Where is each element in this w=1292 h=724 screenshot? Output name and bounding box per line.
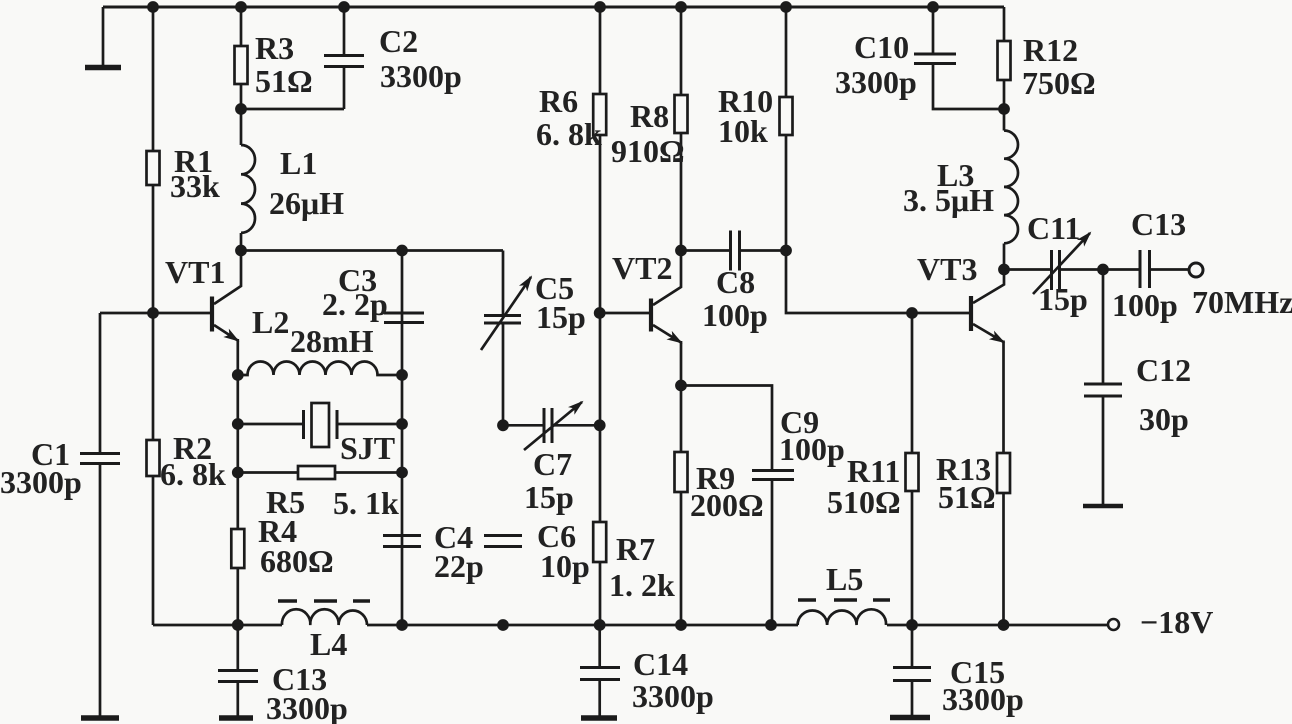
svg-text:3300p: 3300p (632, 678, 714, 714)
svg-text:C11: C11 (1027, 210, 1080, 246)
junction rail / C4 branch (396, 619, 408, 631)
wire R11 branch vertical (911, 313, 914, 625)
wire C12 branch vertical (1102, 270, 1105, 384)
wire C13 to ground (236, 682, 239, 716)
svg-text:51Ω: 51Ω (255, 63, 313, 99)
wire R3 bottom to C2 bottom (241, 108, 344, 111)
svg-text:26μH: 26μH (269, 185, 344, 221)
capacitor C5 trimmer arrow (481, 277, 531, 350)
junction top rail / R3 (235, 1, 247, 13)
svg-text:R3: R3 (255, 30, 294, 66)
L5 core dash 2 (834, 598, 857, 601)
svg-text:SJT: SJT (340, 430, 395, 466)
svg-text:15p: 15p (1038, 281, 1088, 317)
junction crystal left (232, 418, 244, 430)
wire R9 branch vertical (680, 386, 683, 626)
wire R10 branch vertical (785, 7, 788, 251)
capacitor C5 (variable) plates (484, 314, 521, 317)
transistor VT3 emitter lead with arrow (973, 324, 1004, 342)
svg-text:R8: R8 (630, 98, 669, 134)
capacitor C15 (893, 666, 931, 669)
transistor VT1 base bar (210, 297, 214, 332)
inductor L4 (282, 609, 367, 625)
svg-text:VT3: VT3 (917, 251, 977, 287)
svg-text:2. 2p: 2. 2p (322, 286, 388, 322)
svg-text:C2: C2 (379, 23, 418, 59)
wire C12 bottom stub (1102, 397, 1105, 505)
svg-text:100p: 100p (702, 297, 768, 333)
wire C13 branch (236, 625, 239, 670)
resistor R4 (231, 529, 244, 568)
junction VT3 collector / L3 / C11 node (998, 264, 1010, 276)
node -18V terminal circle (1108, 619, 1119, 630)
svg-text:100p: 100p (1112, 287, 1178, 323)
capacitor C7 trimmer arrow (524, 402, 582, 450)
junction R3 / C2 wire (235, 103, 247, 115)
svg-text:3300p: 3300p (942, 681, 1024, 717)
junction L2 right / C3 branch (396, 369, 408, 381)
transistor VT3 collector lead (973, 270, 1004, 304)
inductor L2 (238, 362, 402, 376)
junction rail / R11 / C15 (906, 619, 918, 631)
junction top rail / R10 (780, 1, 792, 13)
wire R1 R2 branch vertical (152, 7, 155, 625)
svg-text:510Ω: 510Ω (827, 484, 901, 520)
junction rail / R13 (998, 619, 1010, 631)
svg-text:R7: R7 (616, 531, 655, 567)
junction top rail / R6 (594, 1, 606, 13)
svg-text:10p: 10p (540, 548, 590, 584)
wire C7 left lead (503, 424, 544, 427)
svg-text:6. 8k: 6. 8k (160, 456, 226, 492)
svg-text:15p: 15p (536, 299, 586, 335)
resistor R1 (147, 151, 160, 185)
resistor R10 (780, 97, 793, 135)
svg-text:51Ω: 51Ω (938, 479, 996, 515)
ground C15 bar (890, 715, 930, 721)
junction rail / R7 / C14 (594, 619, 606, 631)
svg-text:33k: 33k (170, 168, 220, 204)
resistor R11 (906, 453, 919, 491)
wire C14 branch (598, 625, 601, 667)
svg-text:C8: C8 (716, 264, 755, 300)
svg-text:750Ω: 750Ω (1022, 65, 1096, 101)
inductor L1 (241, 145, 255, 233)
wire emitter branch vertical to rail (236, 375, 239, 625)
capacitor C8 plates (729, 231, 732, 271)
resistor R3 (235, 46, 248, 84)
svg-text:910Ω: 910Ω (611, 133, 685, 169)
crystal SJT left plate (302, 410, 305, 439)
capacitor C11 (variable) plates (1050, 250, 1053, 290)
L5 core dash 1 (798, 598, 816, 601)
L5 core dash 3 (873, 598, 890, 601)
svg-text:R6: R6 (539, 83, 578, 119)
wire R8 branch vertical (680, 7, 683, 251)
junction C8 right / R10 (780, 245, 792, 257)
junction VT1 emitter / L2 left (232, 369, 244, 381)
ground C13 bar (219, 715, 253, 721)
svg-text:3300p: 3300p (380, 58, 462, 94)
svg-text:3300p: 3300p (0, 464, 82, 500)
resistor R13 (997, 453, 1010, 493)
wire C11 left lead (1004, 268, 1050, 271)
wire C10 bottom to R12 node (933, 64, 1004, 109)
transistor VT2 emitter lead with arrow (653, 325, 681, 343)
transistor VT2 base bar (649, 299, 653, 332)
junction top rail / C2 (338, 1, 350, 13)
junction rail / C6 branch (497, 619, 509, 631)
wire VT1 collector node to C5 branch (241, 249, 503, 252)
ground top-left chassis stub (102, 7, 105, 65)
svg-text:R12: R12 (1023, 32, 1078, 68)
svg-text:1. 2k: 1. 2k (609, 567, 675, 603)
resistor R7 (593, 522, 606, 562)
wire VT3 emitter down (1002, 341, 1005, 454)
junction collector wire / C3 branch (396, 245, 408, 257)
capacitor C13 (bypass) (218, 669, 258, 672)
wire C4 branch vertical (401, 375, 404, 625)
svg-text:15p: 15p (524, 479, 574, 515)
inductor L3 (1004, 131, 1018, 244)
svg-text:680Ω: 680Ω (260, 543, 334, 579)
crystal SJT right plate (336, 410, 339, 439)
junction C7 right / R6 branch (594, 419, 606, 431)
svg-text:VT1: VT1 (165, 254, 225, 290)
wire VT1 emitter down (236, 339, 239, 375)
capacitor C6 (484, 534, 522, 537)
junction R5 right (396, 467, 408, 479)
junction rail / R9 (675, 619, 687, 631)
L4 core dash 3 (353, 599, 370, 602)
wire C13 output left lead (1103, 268, 1139, 271)
wire R6 R7 branch vertical (599, 7, 602, 625)
junction R12 bottom / C10 wire (998, 103, 1010, 115)
svg-text:3300p: 3300p (835, 64, 917, 100)
svg-text:70MHz: 70MHz (1192, 284, 1292, 320)
wire C15 to ground (911, 681, 914, 716)
junction VT2 base node (594, 307, 606, 319)
wire C2 branch from rail (343, 7, 346, 55)
resistor R8 (675, 95, 688, 133)
capacitor C1 (80, 452, 120, 455)
wire L3 bottom stub (1003, 244, 1006, 270)
junction top rail / C10 (927, 1, 939, 13)
ground bottom-left bar (81, 715, 119, 721)
svg-text:3. 5μH: 3. 5μH (903, 182, 994, 218)
wire VT1 base (100, 312, 210, 315)
svg-text:L1: L1 (280, 145, 317, 181)
svg-text:C10: C10 (854, 29, 909, 65)
capacitor C13 output coupling plates (1139, 250, 1142, 288)
resistor R6 (593, 94, 606, 135)
capacitor C9 (752, 469, 794, 472)
transistor VT1 emitter lead with arrow (214, 325, 238, 341)
junction VT2 emitter / R9 / C9 node (675, 380, 687, 392)
capacitor C10 (914, 53, 956, 56)
wire C5 bottom (502, 324, 505, 426)
svg-text:C12: C12 (1136, 352, 1191, 388)
L4 core dash 1 (278, 599, 297, 602)
junction C11 / C12 / C13 output node (1097, 264, 1109, 276)
wire L1 bottom stub (240, 233, 243, 251)
svg-text:6. 8k: 6. 8k (536, 116, 602, 152)
svg-text:L2: L2 (252, 304, 289, 340)
wire R5 row (238, 471, 402, 474)
capacitor C4 (383, 534, 421, 537)
capacitor C11 trimmer arrow (1033, 233, 1090, 294)
junction VT2 collector / C8 left (675, 245, 687, 257)
junction R5 left (232, 467, 244, 479)
svg-text:−18V: −18V (1140, 604, 1213, 640)
svg-text:30p: 30p (1139, 401, 1189, 437)
ground C14 bar (581, 715, 617, 721)
wire bottom -18V rail left segment (153, 624, 282, 627)
ground C12 bar (1083, 504, 1123, 509)
wire VT2 base (600, 312, 649, 315)
wire top supply rail (103, 6, 1004, 9)
wire C7 right lead (552, 424, 600, 427)
capacitor C7 (variable) plates (543, 408, 546, 443)
L4 core dash 2 (314, 599, 337, 602)
ground top-left bar (85, 65, 121, 71)
wire bottom rail right segment (887, 624, 1108, 627)
svg-text:C14: C14 (633, 646, 688, 682)
wire R13 to rail (1002, 493, 1005, 625)
wire R3 branch from rail (240, 7, 243, 145)
svg-text:28mH: 28mH (290, 323, 374, 359)
svg-text:10k: 10k (718, 113, 768, 149)
wire bottom rail middle segment (367, 624, 798, 627)
transistor VT3 base bar (969, 296, 973, 331)
wire C1 branch (99, 313, 102, 453)
svg-text:200Ω: 200Ω (690, 487, 764, 523)
junction VT3 base wire / R11 branch (906, 307, 918, 319)
capacitor C2 (324, 54, 364, 57)
wire crystal right lead (339, 423, 403, 426)
wire C10 branch from rail (932, 7, 935, 54)
svg-text:L4: L4 (310, 626, 347, 662)
resistor R2 (147, 440, 160, 476)
wire crystal left lead (238, 423, 304, 426)
junction rail / C9 (765, 619, 777, 631)
capacitor C12 (1084, 383, 1122, 386)
svg-text:100p: 100p (779, 431, 845, 467)
node output terminal circle (1189, 263, 1203, 277)
svg-text:VT2: VT2 (612, 250, 672, 286)
junction top rail / R8 (675, 1, 687, 13)
svg-text:22p: 22p (434, 548, 484, 584)
wire C5 branch from collector row (502, 251, 505, 316)
svg-text:C13: C13 (1131, 206, 1186, 242)
wire C1 to ground (99, 464, 102, 716)
wire C9 to rail (771, 480, 774, 625)
wire C8 right lead (741, 249, 786, 252)
junction rail / R4 / C13 (232, 619, 244, 631)
capacitor C3 (384, 312, 424, 315)
transistor VT1 collector lead (214, 251, 241, 305)
resistor R5 (298, 466, 335, 479)
svg-text:5. 1k: 5. 1k (333, 485, 399, 521)
junction C5 C6 / C7 left (497, 419, 509, 431)
wire C8 left lead (681, 249, 729, 252)
svg-text:3300p: 3300p (266, 690, 348, 724)
wire C14 to ground (598, 680, 601, 716)
wire C2 bottom stub (343, 67, 346, 109)
resistor R9 (675, 452, 688, 492)
resistor R12 (998, 41, 1011, 80)
wire C3 branch vertical (401, 251, 404, 376)
svg-text:L5: L5 (826, 561, 863, 597)
wire C13 output right lead (1151, 268, 1188, 271)
capacitor C14 (580, 666, 620, 669)
wire C11 right lead (1061, 268, 1103, 271)
inductor L5 (798, 609, 886, 625)
wire VT2 emitter down (680, 341, 683, 386)
crystal SJT body (312, 403, 330, 447)
transistor VT2 collector lead (653, 251, 681, 306)
junction crystal right (396, 418, 408, 430)
wire C15 branch (911, 625, 914, 667)
wire emitter node to C9 (681, 386, 772, 471)
wire C8 node to VT3 base (786, 251, 969, 314)
junction base wire / R1 R2 branch (147, 307, 159, 319)
wire R12 branch from rail (1003, 7, 1006, 131)
junction top rail / R1 (147, 1, 159, 13)
svg-text:C7: C7 (533, 446, 572, 482)
junction L1 / VT1 collector node (235, 245, 247, 257)
